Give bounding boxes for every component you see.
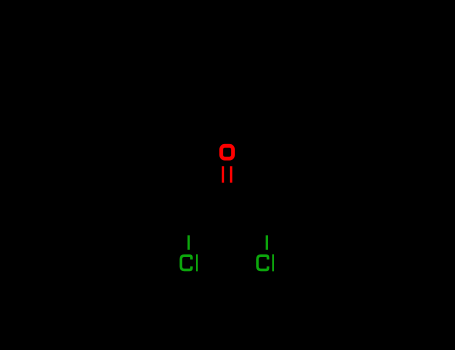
- atom label O (carbonyl oxygen): [221, 146, 233, 159]
- atom label Cl (right chlorine): letter l: [272, 254, 274, 271]
- C=O double bond line 1: [222, 166, 224, 183]
- atom label Cl (left chlorine): letter C: [181, 256, 192, 270]
- bond C1-Cl (left stub): [188, 235, 190, 250]
- atom label Cl (left chlorine): letter l: [196, 254, 198, 271]
- atom label Cl (right chlorine): letter C: [257, 256, 268, 270]
- C=O double bond line 2: [230, 166, 232, 183]
- bond C3-Cl (right stub): [266, 235, 268, 250]
